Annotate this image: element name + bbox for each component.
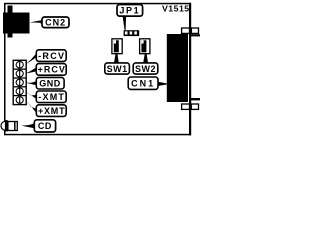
LED CD [1, 120, 17, 131]
bracket rail (right board edge) [189, 3, 191, 136]
callout label CN1 [128, 77, 168, 89]
connector CN2 (jack body) [3, 6, 30, 38]
svg-text:GND: GND [39, 79, 61, 89]
svg-text:+RCV: +RCV [38, 65, 66, 75]
silkscreen text V1515 [162, 4, 190, 14]
callout label CN2 [30, 17, 69, 28]
svg-text:SW1: SW1 [107, 64, 128, 74]
svg-text:V1515: V1515 [162, 4, 190, 14]
svg-text:-RCV: -RCV [38, 51, 65, 61]
terminal block TB (5 screw terminals) [13, 60, 26, 104]
callout label -XMT [26, 91, 67, 103]
svg-text:CD: CD [38, 121, 52, 131]
svg-text:JP1: JP1 [119, 5, 140, 15]
switch SW2 [140, 39, 150, 54]
switch SW1 [112, 39, 122, 54]
terminal screw 5 [16, 97, 23, 104]
callout label GND [26, 77, 65, 89]
callout label SW1 [105, 53, 130, 74]
svg-text:CN1: CN1 [131, 79, 155, 89]
svg-text:SW2: SW2 [135, 64, 156, 74]
connector face tab bottom [190, 98, 200, 100]
terminal screw 1 [16, 61, 23, 68]
svg-text:-XMT: -XMT [38, 92, 65, 102]
terminal screw 3 [16, 79, 23, 86]
svg-text:+XMT: +XMT [38, 106, 65, 116]
callout label JP1 [117, 5, 143, 31]
terminal screw 4 [16, 88, 23, 95]
callout label SW2 [133, 53, 158, 74]
board outline [5, 4, 191, 135]
terminal screw 2 [16, 70, 23, 77]
callout label CD [22, 120, 56, 132]
jackscrew top [182, 28, 199, 33]
connector face tab top [190, 34, 200, 36]
jackscrew bottom [182, 104, 199, 109]
svg-text:CN2: CN2 [45, 17, 66, 27]
connector CN1 (D-sub body) [167, 34, 188, 102]
callout label -RCV [26, 50, 67, 65]
callout label +XMT [26, 100, 67, 116]
callout label +RCV [26, 64, 67, 76]
jumper block JP1 [124, 30, 140, 36]
